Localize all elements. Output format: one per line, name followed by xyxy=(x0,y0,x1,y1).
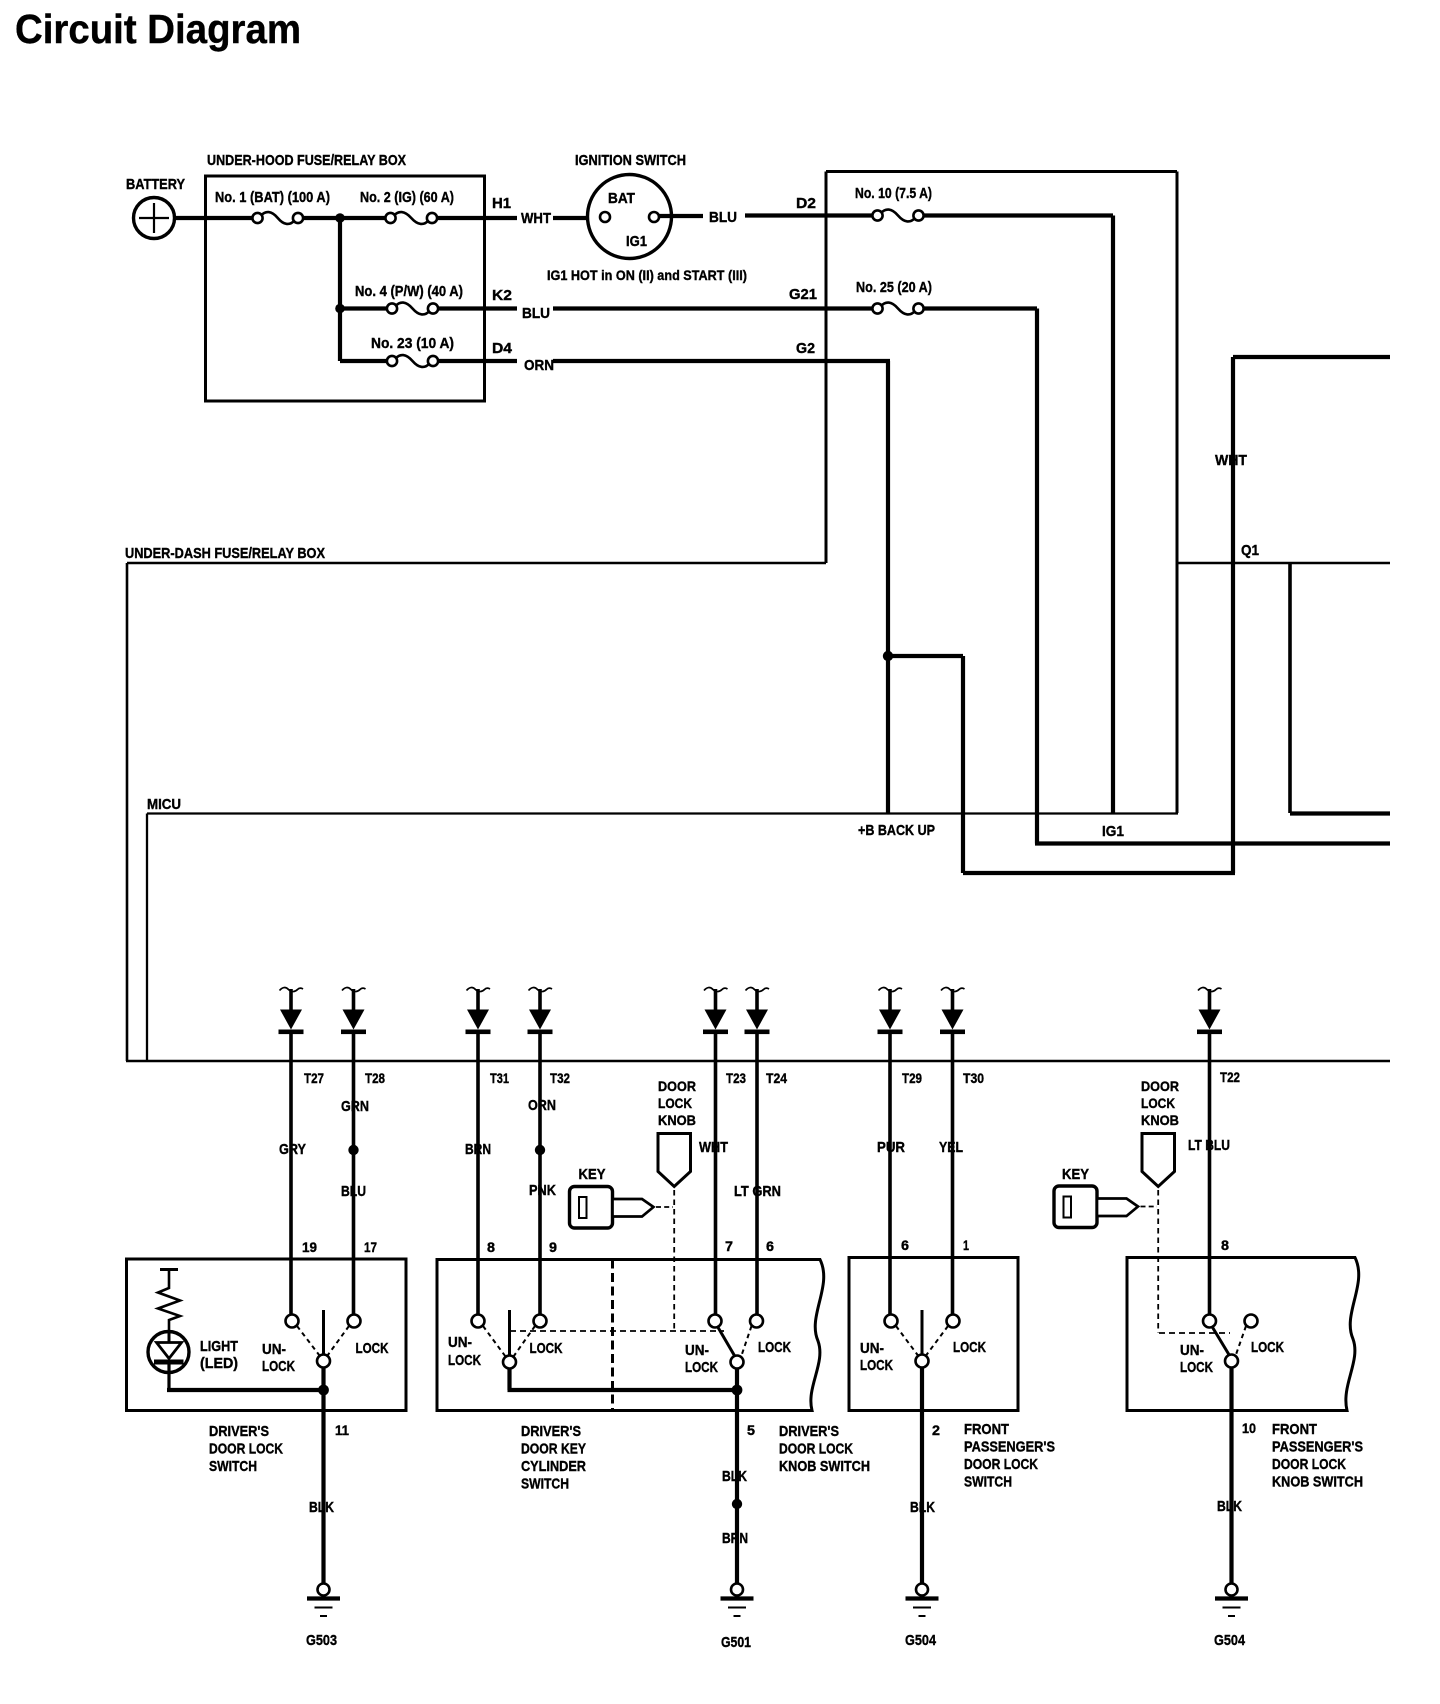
diode T28 xyxy=(341,988,366,1061)
wire 10 BLK to G504 xyxy=(1217,1367,1256,1584)
pin labels T-row xyxy=(304,1069,1240,1086)
diode T31 xyxy=(466,988,491,1061)
svg-text:H1: H1 xyxy=(492,196,511,212)
svg-text:PUR: PUR xyxy=(877,1140,905,1156)
svg-text:+B BACK UP: +B BACK UP xyxy=(858,823,935,839)
svg-text:IG1 HOT in ON (II) and START (: IG1 HOT in ON (II) and START (III) xyxy=(547,267,747,283)
pin +B BACK UP xyxy=(858,823,935,839)
svg-text:SWITCH: SWITCH xyxy=(521,1477,569,1493)
svg-text:UN-: UN- xyxy=(1180,1343,1204,1359)
svg-text:T29: T29 xyxy=(902,1070,922,1086)
svg-text:YEL: YEL xyxy=(939,1140,963,1156)
svg-text:KNOB SWITCH: KNOB SWITCH xyxy=(779,1459,870,1475)
svg-text:DOOR LOCK: DOOR LOCK xyxy=(1272,1457,1346,1473)
svg-text:DOOR: DOOR xyxy=(658,1078,696,1094)
svg-text:1: 1 xyxy=(963,1237,969,1253)
svg-text:17: 17 xyxy=(364,1239,377,1255)
wire T30 YEL xyxy=(939,1061,963,1315)
svg-text:Circuit Diagram: Circuit Diagram xyxy=(15,6,301,52)
under-hood fuse/relay box xyxy=(206,153,485,401)
svg-text:T24: T24 xyxy=(766,1070,787,1086)
svg-text:LOCK: LOCK xyxy=(262,1359,295,1375)
svg-text:BLK: BLK xyxy=(910,1500,935,1516)
under-dash fuse/relay box upper outline xyxy=(826,172,1177,814)
svg-text:19: 19 xyxy=(302,1239,317,1255)
svg-text:PNK: PNK xyxy=(529,1183,556,1199)
svg-text:6: 6 xyxy=(766,1238,774,1254)
wire T32 ORN/PNK xyxy=(528,1061,556,1315)
mech link knob passenger xyxy=(1157,1190,1159,1333)
wire WHT right side xyxy=(1215,357,1390,873)
wire 5 BLK BRN to G501 xyxy=(722,1368,755,1584)
wire fuse No.10 output to MICU IG1 xyxy=(923,216,1114,814)
wire T23 WHT xyxy=(699,1061,728,1315)
driver's door lock switch box xyxy=(127,1259,407,1411)
key KEY passenger xyxy=(1054,1167,1138,1228)
svg-text:FRONT: FRONT xyxy=(964,1422,1009,1438)
svg-text:T23: T23 xyxy=(726,1070,746,1086)
door lock knob driver xyxy=(658,1078,696,1187)
svg-text:G503: G503 xyxy=(306,1632,337,1649)
fuse No.25 (20 A) xyxy=(856,280,932,314)
wire 11 BLK to G503 xyxy=(309,1367,349,1584)
svg-text:SWITCH: SWITCH xyxy=(964,1475,1012,1491)
svg-text:BLK: BLK xyxy=(1217,1499,1242,1515)
wire LED to common junction xyxy=(167,1385,329,1396)
svg-text:G501: G501 xyxy=(721,1634,751,1651)
svg-text:6: 6 xyxy=(901,1237,909,1253)
pin IG1 xyxy=(1102,824,1124,840)
svg-text:DRIVER'S: DRIVER'S xyxy=(779,1424,839,1440)
svg-text:LOCK: LOCK xyxy=(1251,1340,1284,1356)
svg-text:MICU: MICU xyxy=(147,797,181,813)
label front passenger's door lock switch xyxy=(964,1422,1055,1491)
label driver's door key cylinder switch xyxy=(521,1424,586,1493)
svg-text:LOCK: LOCK xyxy=(758,1340,791,1356)
wire T24 LT GRN xyxy=(734,1061,781,1315)
svg-text:BLU: BLU xyxy=(709,210,737,226)
svg-text:G2: G2 xyxy=(796,341,815,357)
svg-text:11: 11 xyxy=(335,1422,349,1438)
svg-text:BLU: BLU xyxy=(341,1184,366,1200)
front passenger's door lock switch box xyxy=(849,1258,1018,1411)
svg-text:G504: G504 xyxy=(905,1632,937,1649)
mech link key driver xyxy=(656,1206,673,1208)
MICU box xyxy=(147,797,1178,1061)
svg-text:ORN: ORN xyxy=(528,1098,556,1114)
svg-text:WHT: WHT xyxy=(1215,453,1247,469)
svg-text:PASSENGER'S: PASSENGER'S xyxy=(1272,1440,1363,1456)
svg-text:No. 23 (10 A): No. 23 (10 A) xyxy=(371,336,454,352)
svg-text:UNDER-DASH FUSE/RELAY BOX: UNDER-DASH FUSE/RELAY BOX xyxy=(125,546,325,562)
diode T23 xyxy=(703,988,728,1061)
svg-text:LIGHT: LIGHT xyxy=(200,1339,238,1355)
battery B1 xyxy=(126,177,185,239)
wire fuse No.25 output xyxy=(923,309,1391,844)
svg-text:KNOB SWITCH: KNOB SWITCH xyxy=(1272,1475,1363,1491)
switch contacts driver's door lock switch xyxy=(286,1310,361,1368)
svg-text:ORN: ORN xyxy=(524,358,554,374)
svg-text:K2: K2 xyxy=(492,288,512,304)
svg-text:8: 8 xyxy=(1221,1237,1229,1253)
key KEY driver xyxy=(570,1167,654,1228)
svg-text:No. 1 (BAT) (100 A): No. 1 (BAT) (100 A) xyxy=(215,190,330,206)
wire K2 BLU / G21 to fuse No.25 xyxy=(437,287,873,322)
diode T32 xyxy=(528,988,553,1061)
svg-text:UNDER-HOOD FUSE/RELAY BOX: UNDER-HOOD FUSE/RELAY BOX xyxy=(207,153,406,169)
svg-text:2: 2 xyxy=(932,1422,940,1438)
switch contacts driver knob switch xyxy=(709,1315,764,1369)
wire G2 vertical to +B BACK UP xyxy=(883,361,893,814)
svg-text:LOCK: LOCK xyxy=(953,1340,986,1356)
svg-text:IG1: IG1 xyxy=(626,234,647,250)
wire 2 BLK to G504 xyxy=(910,1367,940,1584)
svg-text:D4: D4 xyxy=(492,341,513,357)
wire battery to under-hood box xyxy=(174,216,254,220)
wire T28 GRN/BLU xyxy=(341,1061,369,1315)
svg-text:T32: T32 xyxy=(550,1070,570,1086)
divider dashed xyxy=(611,1260,614,1411)
svg-text:PASSENGER'S: PASSENGER'S xyxy=(964,1440,1055,1456)
svg-text:UN-: UN- xyxy=(685,1343,709,1359)
svg-text:CYLINDER: CYLINDER xyxy=(521,1459,586,1475)
svg-text:LOCK: LOCK xyxy=(530,1341,563,1357)
svg-text:G21: G21 xyxy=(789,287,817,303)
svg-text:No. 10 (7.5 A): No. 10 (7.5 A) xyxy=(855,186,932,202)
door lock knob passenger xyxy=(1141,1078,1179,1187)
wire D4 ORN / G2 xyxy=(437,341,890,374)
svg-text:KNOB: KNOB xyxy=(658,1112,696,1128)
svg-text:WHT: WHT xyxy=(699,1140,728,1156)
switch contacts key cylinder xyxy=(472,1310,547,1369)
svg-text:BLK: BLK xyxy=(309,1500,334,1516)
diode T27 xyxy=(279,988,304,1061)
svg-text:KEY: KEY xyxy=(579,1167,606,1183)
wire H1 WHT to ignition switch xyxy=(436,196,600,227)
svg-text:UN-: UN- xyxy=(262,1342,286,1358)
svg-text:(LED): (LED) xyxy=(200,1356,238,1372)
svg-text:8: 8 xyxy=(487,1239,495,1255)
svg-text:No. 25 (20 A): No. 25 (20 A) xyxy=(856,280,932,296)
svg-text:BRN: BRN xyxy=(465,1142,491,1158)
wire ignition to D2 BLU xyxy=(659,196,873,226)
ignition switch xyxy=(575,153,686,259)
label driver's door lock switch xyxy=(209,1424,283,1475)
svg-text:LOCK: LOCK xyxy=(448,1353,481,1369)
svg-text:LOCK: LOCK xyxy=(1141,1095,1175,1111)
ground G503 xyxy=(306,1584,340,1650)
label front passenger's door lock knob switch xyxy=(1272,1422,1363,1491)
svg-text:UN-: UN- xyxy=(448,1335,472,1351)
svg-text:LOCK: LOCK xyxy=(356,1341,389,1357)
wire node junction to fuse No.2 xyxy=(302,213,386,223)
svg-text:BLK: BLK xyxy=(722,1469,747,1485)
svg-text:G504: G504 xyxy=(1214,1632,1246,1649)
svg-text:SWITCH: SWITCH xyxy=(209,1459,257,1475)
wire Q1 drop xyxy=(1290,563,1390,814)
svg-text:BAT: BAT xyxy=(608,191,635,207)
svg-text:7: 7 xyxy=(725,1238,733,1254)
fuse No.4 (P/W) (40 A) xyxy=(335,284,463,314)
mech link bar passenger xyxy=(1159,1332,1230,1334)
svg-text:GRN: GRN xyxy=(341,1099,369,1115)
front passenger's door lock knob switch box xyxy=(1127,1258,1359,1411)
svg-text:LOCK: LOCK xyxy=(1180,1360,1213,1376)
svg-text:BLU: BLU xyxy=(522,306,550,322)
svg-text:T30: T30 xyxy=(963,1070,984,1086)
under-dash fuse/relay box main outline xyxy=(125,546,1390,1061)
svg-text:No. 2 (IG) (60 A): No. 2 (IG) (60 A) xyxy=(360,190,454,206)
svg-text:BATTERY: BATTERY xyxy=(126,177,185,193)
svg-text:IG1: IG1 xyxy=(1102,824,1124,840)
wire T29 PUR xyxy=(877,1061,905,1315)
svg-text:DOOR KEY: DOOR KEY xyxy=(521,1442,586,1458)
svg-text:KNOB: KNOB xyxy=(1141,1112,1179,1128)
ground G501 xyxy=(721,1584,754,1652)
svg-text:LOCK: LOCK xyxy=(658,1095,692,1111)
svg-text:5: 5 xyxy=(747,1422,755,1438)
svg-text:WHT: WHT xyxy=(521,211,551,227)
diode T29 xyxy=(878,988,903,1061)
svg-text:T31: T31 xyxy=(490,1070,509,1086)
svg-text:DOOR LOCK: DOOR LOCK xyxy=(209,1442,283,1458)
wire T22 LT BLU xyxy=(1188,1061,1230,1315)
svg-text:T27: T27 xyxy=(304,1070,324,1086)
switch contacts passenger knob switch xyxy=(1203,1315,1258,1368)
svg-text:LOCK: LOCK xyxy=(860,1358,893,1374)
svg-text:BRN: BRN xyxy=(722,1531,748,1547)
svg-text:LT GRN: LT GRN xyxy=(734,1184,781,1200)
svg-text:9: 9 xyxy=(549,1239,557,1255)
diode T24 xyxy=(745,988,770,1061)
note IG1 HOT xyxy=(547,267,747,283)
svg-text:DOOR LOCK: DOOR LOCK xyxy=(779,1442,853,1458)
svg-text:LT BLU: LT BLU xyxy=(1188,1138,1230,1154)
switch contacts passenger door lock switch xyxy=(885,1310,960,1368)
mech link knob driver xyxy=(673,1190,675,1331)
svg-text:No. 4 (P/W) (40 A): No. 4 (P/W) (40 A) xyxy=(355,284,463,300)
svg-text:D2: D2 xyxy=(796,196,816,212)
svg-text:FRONT: FRONT xyxy=(1272,1422,1317,1438)
fuse No.10 (7.5 A) xyxy=(855,186,932,221)
wire key cylinder common to junction xyxy=(508,1368,743,1395)
mech link key passenger xyxy=(1141,1206,1158,1208)
wire T27 GRY xyxy=(279,1061,306,1315)
mech link bar driver xyxy=(510,1330,724,1332)
under-dash box top right / Q1 xyxy=(1176,543,1390,563)
ground G504 right xyxy=(1214,1584,1248,1650)
wire G2 branch xyxy=(888,656,1235,873)
fuse No.2 (IG) (60 A) xyxy=(360,190,454,224)
svg-text:LOCK: LOCK xyxy=(685,1360,718,1376)
driver's door key cylinder switch box xyxy=(437,1260,824,1411)
svg-text:DRIVER'S: DRIVER'S xyxy=(521,1424,581,1440)
svg-text:T28: T28 xyxy=(365,1070,385,1086)
label driver's door lock knob switch xyxy=(779,1424,870,1475)
terminal numbers above switch boxes xyxy=(302,1237,1229,1255)
ground G504 left xyxy=(905,1584,939,1650)
svg-text:UN-: UN- xyxy=(860,1341,884,1357)
vertical bus inside under-hood box xyxy=(338,218,342,361)
title xyxy=(15,6,301,52)
svg-text:Q1: Q1 xyxy=(1241,543,1259,559)
fuse No.1 (BAT) (100 A) xyxy=(215,190,330,224)
svg-text:T22: T22 xyxy=(1220,1069,1240,1085)
svg-text:DRIVER'S: DRIVER'S xyxy=(209,1424,269,1440)
svg-text:IGNITION SWITCH: IGNITION SWITCH xyxy=(575,153,686,169)
fuse No.23 (10 A) xyxy=(340,336,454,367)
svg-text:10: 10 xyxy=(1242,1420,1256,1436)
svg-text:DOOR LOCK: DOOR LOCK xyxy=(964,1457,1038,1473)
wire T31 BRN xyxy=(465,1061,491,1315)
resistor in door lock switch xyxy=(158,1270,180,1333)
svg-text:DOOR: DOOR xyxy=(1141,1078,1179,1094)
diode T30 xyxy=(940,988,965,1061)
svg-text:GRY: GRY xyxy=(279,1142,306,1158)
diode T22 xyxy=(1197,988,1222,1061)
LED light xyxy=(148,1332,189,1389)
svg-text:KEY: KEY xyxy=(1062,1167,1089,1183)
